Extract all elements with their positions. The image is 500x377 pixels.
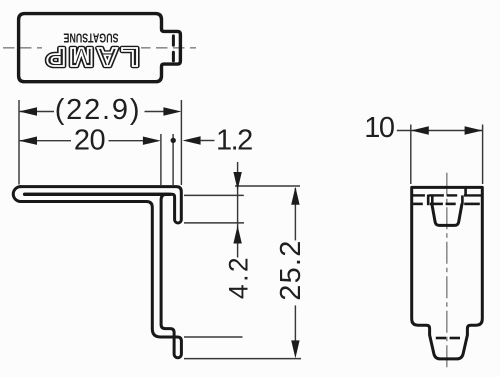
dimension 25.2 line <box>294 188 296 240</box>
extension line lip left (x=173.1) <box>172 134 174 186</box>
LAMP logo text (rotated 180, outlined) <box>43 42 139 72</box>
arrow 20 right <box>143 137 161 145</box>
front ext line right <box>482 125 484 185</box>
svg-text:25.2: 25.2 <box>275 239 307 300</box>
svg-text:LAMP: LAMP <box>43 42 139 72</box>
centerline top view <box>3 47 196 49</box>
extension line top surface right <box>235 185 300 187</box>
front ext line left <box>410 125 412 185</box>
profile: hem seam line <box>25 193 170 196</box>
dimension 1.2 dot <box>171 138 176 143</box>
extension line nub bottom <box>184 358 301 360</box>
extension line foot underside <box>184 336 243 338</box>
profile: left hem fold cap <box>13 187 20 202</box>
front view hem row3 <box>413 203 480 206</box>
dimension (22.9) line <box>20 111 54 113</box>
arrow 4.2 up <box>233 226 241 244</box>
arrow 25.2 down <box>291 340 299 358</box>
extension line right (x=181.4) <box>180 100 182 185</box>
arrow (22.9) left <box>19 107 37 115</box>
extension line 20mm (x=160.9) <box>160 134 162 185</box>
profile: top strip + right lip outline <box>21 187 182 223</box>
arrow 25.2 up <box>291 187 299 205</box>
extension line left (x=19) <box>18 100 20 185</box>
svg-text:(22.9): (22.9) <box>55 94 142 126</box>
top view body outline <box>19 14 181 82</box>
front view lip funnel <box>432 204 462 225</box>
dimension 10 line <box>397 130 483 132</box>
extension line lip bottom <box>184 222 244 224</box>
arrow (22.9) right <box>163 107 181 115</box>
svg-text:10: 10 <box>364 112 394 144</box>
front view cut edge ticks <box>428 188 465 205</box>
svg-text:4.2: 4.2 <box>223 255 253 299</box>
front view centerline <box>446 173 448 371</box>
arrow 20 left <box>19 137 37 145</box>
arrow 10 right <box>465 126 483 134</box>
front view foot bend dashes <box>436 337 460 340</box>
extension line hem seam right <box>184 194 244 196</box>
dimension 20 line <box>20 140 71 142</box>
arrow 10 left <box>411 126 429 134</box>
svg-text:1.2: 1.2 <box>216 125 252 157</box>
dimension 1.2 arrow <box>183 136 201 144</box>
white mask under LAMP logo <box>42 45 141 68</box>
dimension 4.2 line <box>237 162 239 243</box>
front view hem row2 <box>412 194 483 196</box>
arrow 4.2 down <box>233 172 241 190</box>
dimension 1.2 leader <box>201 140 215 142</box>
front view outline <box>412 187 483 359</box>
top view folded tab inner edge <box>172 36 175 45</box>
svg-text:20: 20 <box>74 124 105 156</box>
profile: bottom layer + leg + foot outline <box>21 194 182 357</box>
